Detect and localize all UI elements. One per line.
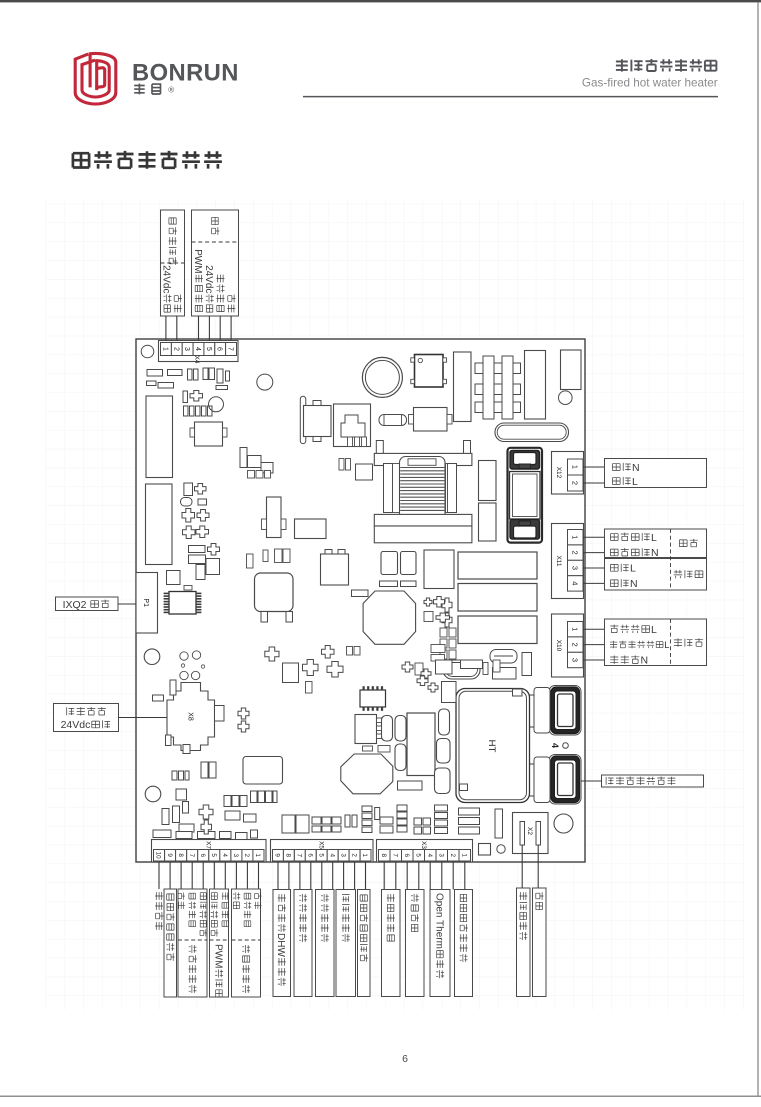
svg-text:8: 8	[177, 853, 184, 857]
capacitor C-mid-b	[479, 503, 497, 541]
capacitor C-pill-4	[437, 739, 451, 764]
SMD row above X3	[397, 805, 407, 811]
label box combustion chamber 燃烧室缸体	[517, 888, 531, 997]
wire X7 pin10	[158, 862, 160, 889]
svg-text:1: 1	[571, 627, 580, 631]
wire IXQ2 callout	[118, 603, 136, 605]
SMD cluster bottom-left	[170, 680, 176, 695]
resistor R-mid	[352, 590, 369, 597]
svg-text:N: N	[651, 547, 659, 559]
label box X12 mains 电源N/电源L	[605, 459, 707, 488]
svg-text:6: 6	[403, 853, 410, 857]
wire ignition callout	[571, 780, 602, 782]
header product name CN	[616, 59, 717, 72]
capacitor C-pill-2	[382, 716, 393, 742]
label box outdoor temp sensor 室外温度传感器	[455, 890, 473, 997]
wire X5 pin9	[277, 862, 279, 890]
wire X5 pin7	[299, 862, 301, 890]
svg-text:X4: X4	[193, 356, 200, 364]
connector X3	[377, 840, 473, 863]
label box heat request 热请求信号	[382, 890, 401, 997]
ignition electrode connector J-ign1	[549, 686, 581, 736]
svg-text:4: 4	[426, 853, 433, 857]
svg-text:2: 2	[172, 347, 179, 351]
label box DHW sensor 生活热水DHW传感器	[273, 890, 291, 997]
svg-text:IXQ2: IXQ2	[63, 599, 87, 611]
label box IXQ2 motor IXQ2电机	[56, 597, 119, 611]
svg-text:4: 4	[328, 853, 335, 857]
wire X7 pin9	[169, 862, 171, 889]
relay K3	[458, 552, 537, 579]
mounting hole A	[209, 397, 224, 412]
svg-text:1: 1	[161, 347, 168, 351]
wire X7 pin1	[258, 862, 260, 889]
svg-text:6: 6	[199, 853, 206, 857]
svg-text:Open Therm: Open Therm	[433, 893, 444, 949]
wire fan signal 3 to X4 pin6	[219, 316, 221, 341]
svg-text:X12: X12	[555, 467, 562, 479]
IC U5 (driver)	[407, 713, 435, 776]
svg-text:3: 3	[571, 658, 580, 662]
svg-text:3: 3	[438, 853, 445, 857]
connector P1	[136, 573, 158, 634]
IC U7 (SOIC)	[360, 690, 386, 707]
wire X7 pin3	[235, 862, 237, 889]
wire X5 pin6	[310, 862, 312, 890]
svg-text:7: 7	[188, 853, 195, 857]
buzzer LS1 (octagon)	[341, 754, 393, 794]
connector X7	[152, 840, 267, 863]
IC U-mid right	[424, 550, 454, 589]
transistor pair right of X8	[238, 708, 249, 719]
label box X10 three-way valve 采暖供电/生活热水供电/公共端/三通阀	[605, 619, 707, 666]
filter choke pill	[495, 423, 569, 442]
svg-text:X11: X11	[555, 555, 562, 566]
connector X10	[552, 614, 584, 677]
toroid inductor L1	[362, 357, 402, 397]
svg-text:24Vdc: 24Vdc	[161, 265, 172, 293]
capacitor C-pill-3	[439, 709, 450, 735]
svg-text:4: 4	[550, 743, 560, 748]
page bottom border	[0, 1095, 761, 1097]
label box ignition 点火和火焰识别	[602, 775, 704, 787]
IC U3 rounded	[255, 573, 294, 612]
svg-text:X10: X10	[555, 640, 562, 652]
wire X11 pin1	[583, 536, 605, 538]
IC U-top tall	[561, 350, 582, 390]
wire X11 pin3	[583, 567, 605, 569]
wire valve 24Vdc to X4 pin1	[165, 316, 167, 341]
wire X7 pin8	[180, 862, 182, 889]
mounting hole C	[144, 649, 160, 665]
svg-text:X7: X7	[205, 841, 212, 849]
wire fan signal 2 to X4 pin5	[208, 316, 210, 341]
svg-text:2: 2	[571, 551, 580, 555]
label box return water sensor 回水传感器	[316, 890, 335, 997]
PCB board outline	[136, 339, 585, 862]
relay K1 (PCB top)	[415, 355, 444, 388]
svg-text:L: L	[632, 476, 638, 488]
svg-text:1: 1	[461, 853, 468, 857]
svg-text:6: 6	[307, 853, 314, 857]
svg-text:X5: X5	[318, 841, 325, 849]
svg-text:N: N	[641, 655, 649, 667]
svg-text:5: 5	[210, 853, 217, 857]
label box water seal detect 水封检测	[406, 890, 425, 997]
wire X11 pin2	[583, 552, 605, 554]
svg-text:3: 3	[232, 853, 239, 857]
wire fan signal 4 to X4 pin7	[230, 316, 232, 341]
connector X8	[167, 683, 215, 751]
wire X2 pin2 机壳	[537, 845, 539, 888]
svg-text:2: 2	[571, 481, 580, 485]
wire X2 pin1 燃烧室缸体	[521, 845, 523, 888]
wire X3 pin7	[395, 862, 397, 890]
wire X5 pin4	[332, 862, 334, 890]
SMD cluster above HT	[402, 662, 413, 672]
wire X3 pin3	[441, 862, 443, 890]
svg-text:5: 5	[205, 347, 212, 351]
header rule	[303, 96, 718, 98]
component square right of X3	[479, 844, 491, 856]
svg-text:8: 8	[285, 853, 292, 857]
wire X5 pin2	[354, 862, 356, 890]
SMD cluster center	[240, 448, 247, 468]
wire X5 pin1	[365, 862, 367, 890]
wire X3 pin8	[383, 862, 385, 890]
wire fan signal 1 to X4 pin4	[198, 316, 200, 341]
page top border	[0, 0, 761, 2]
label box overheat protect power 超温保护电源端	[358, 890, 371, 997]
capacitor bank C-top-2	[525, 351, 546, 420]
marking 4 and test point	[550, 743, 560, 748]
relay K5	[458, 616, 537, 644]
ignition electrode connector J-ign2	[549, 755, 581, 805]
svg-text:PWM: PWM	[212, 944, 223, 968]
wire X7 pin6	[202, 862, 204, 889]
transformer T2 main (hatched core)	[376, 441, 383, 454]
wire X5 pin3	[343, 862, 345, 890]
background grid	[46, 200, 745, 1010]
svg-text:L: L	[651, 532, 657, 544]
wire X3 pin2	[452, 862, 454, 890]
wire X10 pin3	[583, 659, 605, 661]
svg-text:3: 3	[339, 853, 346, 857]
page right border	[757, 2, 759, 1096]
svg-text:Gas-fired hot water heater: Gas-fired hot water heater	[582, 76, 718, 89]
label box OpenTherm thermostat Open Therm温控器	[430, 890, 450, 997]
capacitor C-pill-5	[435, 768, 451, 794]
IC U9 tall	[146, 484, 173, 565]
microcontroller U2 (QFP)	[169, 592, 196, 615]
svg-text:L: L	[630, 563, 636, 575]
svg-text:9: 9	[274, 853, 281, 857]
svg-text:9: 9	[166, 853, 173, 857]
svg-text:N: N	[630, 578, 638, 590]
svg-text:5: 5	[415, 853, 422, 857]
svg-text:X2: X2	[526, 827, 533, 835]
svg-text:1: 1	[571, 465, 580, 469]
svg-text:HT: HT	[486, 740, 497, 753]
svg-text:PWM: PWM	[192, 249, 203, 273]
wire X10 pin1	[583, 628, 605, 630]
label box supply water sensor 供水传感器	[294, 890, 312, 997]
connector X4	[159, 341, 239, 362]
SMD component cluster top-left	[147, 370, 163, 377]
IC U4 block	[321, 554, 349, 585]
svg-text:4: 4	[194, 347, 201, 351]
wire X10 pin2	[583, 644, 605, 646]
wire X3 pin5	[418, 862, 420, 890]
label box X11 fan/pump 风机电源/电源/风机/循环泵	[605, 529, 707, 558]
svg-text:4: 4	[571, 581, 580, 585]
svg-text:X8: X8	[186, 712, 193, 721]
SMD cluster left of U3	[247, 554, 254, 568]
connector X2	[513, 813, 549, 854]
voltage regulator w/ tabs	[267, 497, 282, 538]
connector X5	[271, 840, 374, 863]
svg-text:DHW: DHW	[275, 933, 286, 957]
capacitor bank C-top-1	[454, 352, 472, 422]
svg-text:N: N	[632, 462, 640, 474]
wire X7 pin2	[246, 862, 248, 889]
svg-text:X3: X3	[420, 841, 427, 849]
capacitor C-pill-0	[395, 716, 406, 742]
pad circles near X8	[180, 652, 188, 660]
relay assembly K2 (dark clips)	[508, 448, 543, 543]
wire X7 pin4	[224, 862, 226, 889]
svg-text:2: 2	[243, 853, 250, 857]
relay K4	[458, 584, 537, 612]
svg-text:BONRUN: BONRUN	[132, 60, 239, 87]
mounting hole top-left	[141, 345, 154, 358]
wire X12 pin2	[583, 482, 605, 484]
svg-text:2: 2	[350, 853, 357, 857]
mounting hole D	[145, 786, 161, 802]
svg-text:10: 10	[155, 852, 162, 860]
label box comm port 通讯端口24Vdc电源	[54, 704, 119, 732]
label box DC gas valve 直流燃气阀/24Vdc供电/接地	[161, 210, 185, 316]
svg-text:®: ®	[168, 85, 174, 94]
SMD row above X5	[282, 815, 295, 833]
wire X3 pin4	[429, 862, 431, 890]
label box 超温保护输入端 (X7 pin9)	[164, 889, 177, 997]
wire X11 pin4	[583, 582, 605, 584]
svg-text:1: 1	[254, 853, 261, 857]
svg-text:7: 7	[392, 853, 399, 857]
IC U-mid small	[295, 519, 327, 539]
svg-text:L: L	[664, 640, 669, 650]
svg-text:6: 6	[402, 1053, 408, 1065]
wire HT to J-ign1	[530, 694, 550, 696]
label 公共接地 (X7 pin10)	[155, 892, 163, 930]
mounting hole bottom-right	[554, 814, 573, 833]
wire X5 pin8	[288, 862, 290, 890]
label box flue sensor 烟道传感器	[336, 890, 356, 997]
svg-text:P1: P1	[142, 598, 149, 607]
page title 电器端子接线图	[73, 151, 222, 169]
svg-text:8: 8	[380, 853, 387, 857]
svg-text:L: L	[651, 624, 657, 636]
SMD cluster bottom-middle	[265, 647, 279, 661]
capacitor C-bot-r	[495, 809, 503, 838]
svg-text:1: 1	[571, 535, 580, 539]
wire X3 pin1	[464, 862, 466, 890]
svg-text:5: 5	[318, 853, 325, 857]
svg-text:4: 4	[221, 853, 228, 857]
svg-text:7: 7	[227, 347, 234, 351]
mounting hole B	[257, 374, 273, 390]
svg-text:1: 1	[361, 853, 368, 857]
connector X12	[552, 452, 584, 495]
ignition transformer HT	[456, 689, 530, 803]
capacitor C-pill-1	[395, 744, 406, 771]
label box fan 风机/PWM控制信号/24Vdc供电/反馈信号/接地	[192, 210, 239, 316]
wire HT to J-ign2	[530, 763, 550, 765]
transformer T1 EI lamination	[475, 363, 521, 374]
wire X5 pin5	[321, 862, 323, 890]
wire X3 pin6	[406, 862, 408, 890]
SMD cluster right-middle	[442, 598, 452, 612]
wire valve GND to X4 pin2	[176, 316, 178, 341]
logo chinese 博容	[134, 84, 160, 95]
svg-text:6: 6	[216, 347, 223, 351]
svg-text:7: 7	[296, 853, 303, 857]
wire comm port callout	[119, 717, 186, 719]
wire X7 pin7	[191, 862, 193, 889]
testpoint circle right of X3	[497, 845, 505, 853]
svg-text:3: 3	[183, 347, 190, 351]
label box water flow sensor 接地/输入信号/电源供电端/水流传感器	[178, 889, 207, 997]
capacitor C-mid-a	[479, 461, 497, 501]
svg-text:2: 2	[571, 643, 580, 647]
electrolytic pair C10 C11	[381, 552, 398, 575]
label box water pressure sensor 供电/输入信号/接地/水压传感器	[232, 889, 261, 997]
IC U8 tall	[146, 396, 173, 478]
svg-text:24Vdc: 24Vdc	[61, 719, 91, 731]
wire X7 pin5	[213, 862, 215, 889]
svg-text:3: 3	[571, 566, 580, 570]
svg-text:24Vdc: 24Vdc	[203, 265, 214, 293]
svg-text:2: 2	[449, 853, 456, 857]
label box PWM pump 电源供电端/控制信号/PWM循环泵	[210, 889, 229, 997]
connector group top-middle	[300, 396, 306, 443]
IC U6 with pins	[355, 715, 377, 744]
mounting hole mid-right	[559, 391, 573, 405]
connector X11	[552, 524, 584, 599]
crystal Y1 (octagon)	[363, 591, 416, 644]
label box chassis 机壳	[533, 888, 547, 997]
wire X12 pin1	[583, 466, 605, 468]
BONRUN logo mark	[75, 53, 116, 104]
